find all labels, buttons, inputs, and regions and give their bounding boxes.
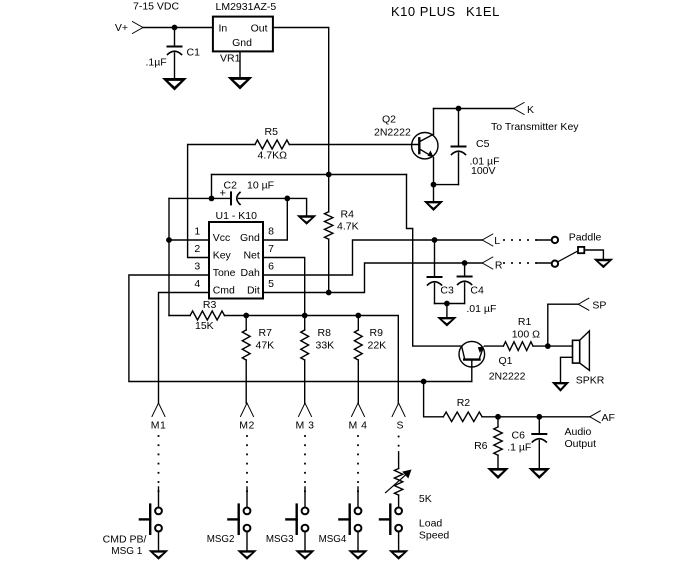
svg-text:Net: Net (243, 250, 259, 262)
svg-text:10 µF: 10 µF (247, 180, 274, 192)
svg-text:LM2931AZ-5: LM2931AZ-5 (216, 1, 277, 13)
svg-text:Q1: Q1 (499, 355, 513, 367)
svg-text:33K: 33K (316, 339, 335, 351)
svg-text:Audio: Audio (565, 426, 592, 438)
svg-text:Vcc: Vcc (213, 232, 231, 244)
svg-text:Gnd: Gnd (232, 37, 252, 49)
svg-text:MSG2: MSG2 (207, 534, 235, 545)
svg-text:C5: C5 (476, 138, 490, 150)
svg-text:Q2: Q2 (382, 114, 396, 126)
svg-text:C4: C4 (470, 285, 484, 297)
svg-text:VR1: VR1 (220, 53, 241, 65)
svg-text:Out: Out (251, 22, 268, 34)
svg-text:22K: 22K (368, 339, 387, 351)
svg-text:47K: 47K (256, 339, 275, 351)
svg-text:R6: R6 (474, 440, 488, 452)
svg-text:R5: R5 (265, 126, 279, 138)
svg-text:K1EL: K1EL (466, 4, 500, 19)
svg-text:In: In (219, 22, 228, 34)
svg-text:8: 8 (268, 226, 274, 238)
svg-text:M1: M1 (151, 420, 167, 432)
svg-text:Key: Key (213, 250, 232, 262)
svg-text:C1: C1 (187, 47, 201, 59)
svg-text:R7: R7 (259, 327, 273, 339)
svg-text:Load: Load (419, 518, 443, 530)
svg-text:15K: 15K (195, 320, 214, 332)
svg-text:100V: 100V (471, 165, 496, 177)
svg-text:1: 1 (194, 226, 200, 238)
svg-text:MSG3: MSG3 (266, 534, 294, 545)
svg-text:5: 5 (268, 278, 274, 290)
svg-text:+: + (220, 188, 226, 200)
svg-text:7-15 VDC: 7-15 VDC (133, 1, 180, 13)
svg-text:6: 6 (268, 261, 274, 273)
svg-text:3: 3 (194, 261, 200, 273)
svg-text:Paddle: Paddle (569, 232, 602, 244)
svg-text:K: K (527, 104, 534, 116)
svg-text:Cmd: Cmd (213, 285, 235, 297)
svg-text:2: 2 (194, 243, 200, 255)
svg-text:R9: R9 (370, 327, 384, 339)
svg-text:Dah: Dah (241, 267, 260, 279)
svg-text:M2: M2 (239, 420, 255, 432)
svg-text:Dit: Dit (247, 285, 260, 297)
svg-text:R: R (495, 260, 503, 272)
svg-text:AF: AF (602, 412, 615, 424)
svg-text:MSG 1: MSG 1 (111, 546, 143, 557)
svg-text:Output: Output (565, 438, 597, 450)
svg-text:Tone: Tone (213, 267, 236, 279)
svg-text:S: S (396, 420, 403, 432)
svg-text:100 Ω: 100 Ω (512, 329, 540, 341)
svg-text:M 3: M 3 (295, 420, 314, 432)
svg-text:4.7K: 4.7K (337, 221, 359, 233)
svg-text:SP: SP (592, 300, 606, 312)
svg-text:R8: R8 (318, 327, 332, 339)
svg-text:.1 µF: .1 µF (507, 442, 531, 454)
svg-text:.01 µF: .01 µF (466, 303, 496, 315)
svg-text:R4: R4 (341, 209, 355, 221)
svg-text:4.7KΩ: 4.7KΩ (258, 150, 288, 162)
svg-text:.1µF: .1µF (146, 57, 167, 69)
svg-text:2N2222: 2N2222 (374, 127, 411, 139)
svg-text:R2: R2 (457, 397, 471, 409)
svg-text:L: L (494, 235, 500, 247)
svg-text:K10 PLUS: K10 PLUS (391, 4, 456, 19)
svg-text:Gnd: Gnd (240, 232, 260, 244)
svg-text:C6: C6 (512, 430, 526, 442)
svg-text:CMD PB/: CMD PB/ (103, 534, 147, 546)
svg-text:SPKR: SPKR (576, 375, 605, 387)
svg-text:4: 4 (194, 278, 200, 290)
svg-text:U1 - K10: U1 - K10 (216, 210, 258, 222)
svg-text:M 4: M 4 (348, 420, 367, 432)
svg-text:To Transmitter Key: To Transmitter Key (491, 121, 579, 133)
svg-text:5K: 5K (419, 493, 432, 505)
svg-text:7: 7 (268, 243, 274, 255)
svg-text:R1: R1 (518, 316, 532, 328)
svg-text:R3: R3 (203, 299, 217, 311)
svg-text:Speed: Speed (419, 530, 450, 542)
svg-text:V+: V+ (115, 22, 128, 34)
svg-text:2N2222: 2N2222 (489, 371, 526, 383)
svg-text:C3: C3 (440, 285, 454, 297)
svg-text:MSG4: MSG4 (319, 534, 347, 545)
